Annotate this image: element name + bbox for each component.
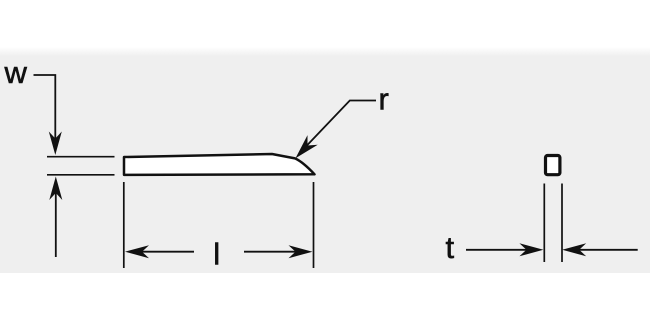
leader for w <box>34 75 56 142</box>
svg-text:w: w <box>4 55 28 90</box>
arrowhead l left <box>125 245 149 258</box>
extension line t right <box>561 184 563 263</box>
cross-section rectangle (end view) <box>546 156 560 175</box>
extension line blade bottom <box>47 174 115 176</box>
svg-text:t: t <box>446 230 455 265</box>
dimension line l left segment <box>140 251 194 253</box>
arrowhead r diagonal <box>290 135 317 163</box>
svg-text:r: r <box>379 82 389 117</box>
dimension line t left segment <box>466 249 530 251</box>
extension line l right <box>313 182 315 268</box>
blade outline (side view) <box>124 154 315 175</box>
arrow w up shaft <box>55 193 57 257</box>
arrowhead w up <box>49 177 62 201</box>
extension line blade top <box>47 156 115 158</box>
extension line l left <box>123 182 125 268</box>
svg-text:l: l <box>213 237 220 272</box>
arrowhead t left-pointing <box>562 243 586 256</box>
extension line t left <box>543 184 545 263</box>
arrowhead l right <box>289 245 313 258</box>
leader for r <box>305 101 377 149</box>
arrowhead t right-pointing <box>519 243 543 256</box>
arrowhead w down <box>49 132 62 156</box>
gray band background <box>0 47 650 273</box>
dimension line l right segment <box>244 251 298 253</box>
dimension line t right segment <box>576 249 638 251</box>
